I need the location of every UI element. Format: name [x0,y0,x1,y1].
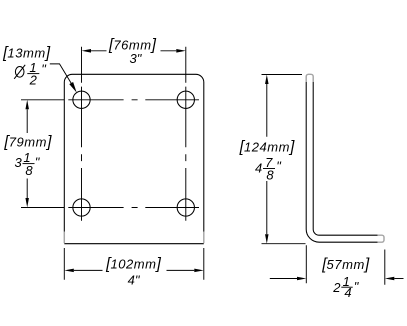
svg-text:2: 2 [332,280,341,295]
dimension 102mm arrow right [194,269,204,273]
svg-text:2: 2 [29,73,38,88]
svg-text:": " [41,61,47,76]
plate outline (front view) [64,74,204,232]
dimension 76mm arrow left [82,49,92,53]
centerline column right [185,87,187,221]
svg-text:4: 4 [344,285,351,300]
hole top-left [73,91,90,108]
dimension 3 1/8 inch label [14,150,40,178]
hole top-right [177,91,194,108]
hole bottom-right [177,199,194,216]
svg-text:4: 4 [255,160,262,175]
dimension 2 1/4 inch label [332,274,359,300]
svg-text:8: 8 [25,163,33,178]
side view end cap (grey) [378,235,384,242]
hole callout leader arrow [69,82,76,93]
side view inner profile [313,82,377,235]
hole callout leader line [50,64,73,86]
svg-text:[79mm]: [79mm] [3,133,52,150]
svg-text:3: 3 [14,155,22,170]
svg-text:[102mm]: [102mm] [105,255,161,272]
dimension 124mm line [266,84,268,234]
dimension 124mm arrow down [265,234,269,244]
dimension 57mm line left [270,278,297,280]
svg-text:8: 8 [266,168,274,183]
dimension 124mm arrow up [265,75,269,85]
hole callout diameter symbol [14,65,25,79]
centerline column left [81,87,83,221]
dimension 124mm extension lines [262,75,306,244]
svg-text:4": 4" [128,273,141,288]
hole bottom-left [73,199,90,216]
dimension 4 7/8 inch label [255,155,282,183]
svg-text:": " [276,158,282,173]
plate bottom bend edge [64,243,204,245]
dimension 57mm extension lines [306,245,385,285]
svg-text:[124mm]: [124mm] [239,138,295,155]
dimension 102mm arrow left [64,269,74,273]
centerline row top [68,99,199,101]
dimension 57mm line right [394,278,403,280]
hole callout 1/2 inch fraction [27,60,47,87]
dimension 57mm arrow right [385,277,395,281]
dimension 79mm arrow up [25,100,29,110]
dimension 76mm arrow right [176,49,186,53]
svg-text:": " [354,279,360,294]
dimension 57mm arrow left [297,277,306,281]
dimension 76mm extension lines [82,47,186,83]
dimension 79mm line [26,109,28,198]
dimension 79mm arrow down [25,198,29,208]
dimension 102mm line [74,269,195,271]
bend tangent edge left (grey) [63,232,65,243]
svg-text:[57mm]: [57mm] [321,256,370,273]
centerline row bottom [68,207,199,209]
bend tangent edge right (grey) [203,232,205,243]
svg-text:": " [35,155,41,170]
dimension 79mm extension lines [21,100,64,208]
svg-text:[13mm]: [13mm] [2,44,51,61]
svg-text:3": 3" [129,51,142,66]
side view top cap (grey) [306,74,313,82]
side view outer profile [306,82,377,242]
dimension 102mm extension lines [64,248,204,280]
dimension 76mm line [91,50,176,52]
